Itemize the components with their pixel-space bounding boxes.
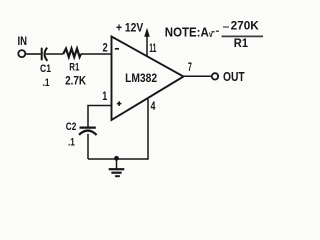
svg-text:R1: R1 — [234, 38, 249, 50]
inverting input marker (-) — [115, 48, 119, 50]
ground rail wire — [88, 158, 148, 160]
note gain formula NOTE: Av = -270K/R1 — [165, 19, 263, 50]
svg-text:1: 1 — [102, 89, 107, 103]
svg-text:LM382: LM382 — [125, 71, 157, 85]
resistor R1 — [63, 49, 81, 57]
pin 4 wire — [147, 99, 149, 160]
svg-text:R1: R1 — [69, 61, 79, 73]
svg-text:.1: .1 — [43, 77, 50, 89]
wire C2 to ground rail — [87, 134, 89, 159]
svg-text:.1: .1 — [68, 137, 75, 149]
svg-text:2: 2 — [103, 40, 108, 54]
capacitor C1 — [42, 48, 48, 61]
svg-text:C1: C1 — [40, 63, 51, 75]
wire input terminal to C1 — [25, 53, 40, 55]
input terminal — [18, 50, 25, 57]
ground — [109, 159, 125, 176]
svg-text:11: 11 — [149, 41, 156, 55]
+12V supply arrow (pin 11) — [146, 35, 148, 56]
junction dot — [114, 156, 119, 161]
svg-text:NOTE:A: NOTE:A — [165, 26, 209, 40]
svg-text:+ 12V: + 12V — [116, 21, 143, 35]
non-inverting input marker (+) — [117, 101, 122, 106]
output wire pin 7 — [184, 75, 212, 77]
svg-text:270K: 270K — [231, 19, 260, 33]
svg-text:OUT: OUT — [223, 70, 245, 84]
svg-text:2.7K: 2.7K — [65, 74, 86, 88]
svg-text:7: 7 — [188, 62, 192, 74]
svg-text:4: 4 — [151, 99, 156, 113]
capacitor C2 — [79, 128, 97, 135]
wire R1 to op-amp pin 2 — [81, 53, 112, 55]
output terminal — [212, 73, 218, 79]
pin 1 wire (to C2 branch) — [88, 106, 112, 127]
wire C1 to R1 — [46, 53, 63, 55]
svg-text:IN: IN — [18, 36, 28, 48]
svg-text:C2: C2 — [66, 121, 77, 133]
op-amp U1 LM382 triangle — [112, 37, 184, 121]
